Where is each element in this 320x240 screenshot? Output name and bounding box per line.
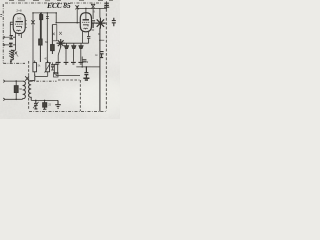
AM antenna terminal bottom — [3, 98, 22, 101]
V1 grid cap (left of tube) — [10, 22, 13, 36]
small cap under V2 right lead — [87, 36, 90, 43]
V2 anode top lead — [85, 8, 87, 19]
top right bus — [77, 7, 106, 9]
shield box bottom border — [29, 110, 106, 112]
marks on x=47 — [46, 17, 49, 19]
top edge cropped print fragments — [9, 0, 113, 2]
coil L4 cluster — [51, 25, 55, 55]
AM antenna terminal top — [3, 80, 22, 83]
V1 pin ticks — [25, 21, 27, 28]
C8 ground bar — [83, 78, 89, 80]
paper background — [0, 0, 120, 119]
L1 trimmer mark — [15, 52, 18, 55]
trimmer X (x=93) — [91, 4, 95, 9]
crossing x mark on partition — [25, 76, 29, 81]
top mid bus wire — [33, 12, 56, 14]
trimmer T2 dark — [43, 100, 47, 109]
left-edge stray mark — [0, 15, 2, 17]
node dot + stub y=40 — [99, 39, 101, 41]
svg-text:ECC 85: ECC 85 — [46, 1, 71, 10]
inner partition corner box — [54, 73, 59, 78]
cap C6 right edge — [112, 18, 116, 26]
V1 bottom leads — [16, 33, 22, 38]
trimmer T1 (diag arrow) — [33, 100, 39, 109]
trimmer X top (x=77) — [75, 5, 79, 9]
V2 envelope — [80, 13, 91, 32]
V2 bottom leads — [82, 32, 88, 44]
padder P1 — [64, 43, 68, 62]
wire grid column — [13, 37, 16, 50]
mid column small marks — [52, 25, 57, 41]
node dots on bus — [32, 12, 48, 14]
V2 grid — [82, 21, 89, 23]
wire x=100 long vertical — [99, 28, 101, 112]
tuning gang star S2 — [95, 18, 105, 29]
AM series cap C9 — [14, 81, 18, 99]
padder P2 — [72, 43, 76, 62]
trimmer X on x=33 — [31, 20, 34, 24]
wire y=67 — [76, 66, 100, 68]
stub x=82 — [81, 57, 83, 67]
coil L2 — [40, 13, 43, 40]
V1 heater — [17, 29, 21, 32]
V2 anode — [83, 19, 89, 21]
wire bus to star — [99, 8, 101, 17]
R2 cap partner — [51, 62, 54, 70]
feed-through cap top right — [104, 1, 109, 9]
wire x=47 — [46, 13, 48, 62]
coil L1 (input coil) — [9, 50, 16, 63]
V1 anode — [16, 21, 24, 23]
shield box right dashed border — [105, 9, 107, 111]
resistor R2 — [45, 61, 51, 77]
V2 cathode — [83, 25, 89, 27]
inner partition vertical x=80 — [79, 80, 81, 111]
tube V1 envelope — [13, 14, 25, 34]
AM transformer secondary — [29, 77, 35, 101]
stray x mark b — [53, 33, 55, 36]
shield box dash-dot: top border — [5, 2, 101, 4]
svg-text:2×8: 2×8 — [16, 8, 22, 12]
coil L3 blob — [39, 13, 42, 62]
stray mark right of L1 — [17, 55, 18, 57]
resistor R1 — [33, 61, 37, 77]
wire x=33 — [32, 13, 34, 62]
wire x=77 — [76, 6, 78, 23]
stray x mark a — [59, 32, 62, 35]
comp blob at 82,60 — [83, 60, 87, 62]
V1 cathode — [16, 27, 22, 29]
mid bus wire to V2 — [56, 22, 80, 24]
cap C8 to ground — [84, 67, 88, 78]
inner partition y=81 — [30, 80, 57, 82]
node dots y=67 — [81, 66, 87, 68]
shield partition vertical x=28.7 — [28, 61, 30, 110]
node dot — [55, 12, 57, 23]
FM input cap C2 — [9, 43, 13, 47]
chassis ground G1 — [55, 100, 61, 108]
FM input cap C1 — [10, 35, 13, 39]
wire under R1 R2 — [35, 75, 48, 77]
svg-text:565: 565 — [17, 16, 22, 20]
shield box dash-dot: left border — [2, 4, 4, 63]
wire y=75 — [56, 74, 80, 76]
ground bars row — [56, 62, 83, 64]
node dots — [15, 80, 17, 100]
inner partition y=80 right — [58, 79, 80, 81]
wire x=93 — [92, 8, 94, 19]
node dots — [35, 100, 45, 102]
cap C7 (x=101, y=52) — [100, 52, 104, 58]
osc bus wire y=43 — [57, 42, 89, 44]
cap C5 (x=93) — [91, 21, 95, 28]
star S1 stem — [58, 47, 61, 62]
FM antenna terminal 1 — [4, 36, 13, 38]
padder P3 — [79, 43, 83, 62]
FM antenna terminal 2 — [4, 44, 13, 46]
node dot — [76, 8, 86, 24]
bottom wire y=100 — [31, 99, 58, 101]
V1 grid — [15, 23, 24, 25]
resistor R3 — [54, 62, 57, 76]
V2 heater — [84, 27, 88, 30]
AM transformer primary — [23, 81, 26, 99]
shield box dash-dot: lower-left horizontal — [3, 62, 25, 64]
wire x=56 — [55, 13, 57, 23]
tuning gang star S1 — [57, 39, 65, 47]
